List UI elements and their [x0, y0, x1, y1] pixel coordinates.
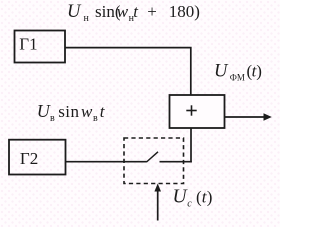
wire from G2 to switch: [66, 161, 147, 163]
block G2 (generator Г2): [9, 140, 66, 175]
dashed box around switch: [124, 138, 184, 184]
svg-text:c: c: [187, 198, 192, 209]
svg-text:): ): [207, 187, 213, 206]
svg-text:sin: sin: [58, 102, 79, 121]
wire from switch right side to vertical riser: [160, 161, 192, 163]
control arrow up into dashed box bottom: [154, 184, 161, 221]
svg-text:Г2: Г2: [20, 149, 38, 168]
label Uв sin wвt middle left: [37, 101, 106, 124]
svg-text:в: в: [93, 113, 98, 124]
label Uc(t) bottom: [173, 186, 213, 209]
svg-text:): ): [256, 62, 262, 81]
block G1 (generator Г1): [15, 31, 66, 63]
svg-text:t: t: [133, 2, 139, 21]
svg-text:Г1: Г1: [19, 35, 37, 54]
svg-text:w: w: [81, 102, 93, 121]
svg-text:t: t: [100, 102, 106, 121]
svg-text:U: U: [37, 101, 51, 121]
svg-text:н: н: [84, 13, 90, 24]
label Uфм(t) right: [214, 61, 262, 82]
svg-text:в: в: [50, 113, 55, 124]
svg-text:U: U: [214, 61, 229, 81]
output wire with arrow from adder right: [225, 113, 272, 120]
svg-text:w: w: [117, 2, 129, 21]
vertical wire riser from switch wire up to adder bottom: [190, 128, 192, 163]
svg-text:ФМ: ФМ: [230, 73, 245, 83]
svg-text:U: U: [173, 186, 189, 207]
label Uн sin(wнt + 180) top: [67, 2, 200, 24]
svg-text:U: U: [67, 2, 82, 22]
svg-text:+: +: [147, 2, 157, 21]
wire from G1 output, horizontal then down to adder top: [65, 48, 191, 95]
svg-text:180): 180): [169, 2, 200, 21]
adder block with plus: [170, 95, 225, 128]
switch lever (open contact): [147, 152, 159, 162]
